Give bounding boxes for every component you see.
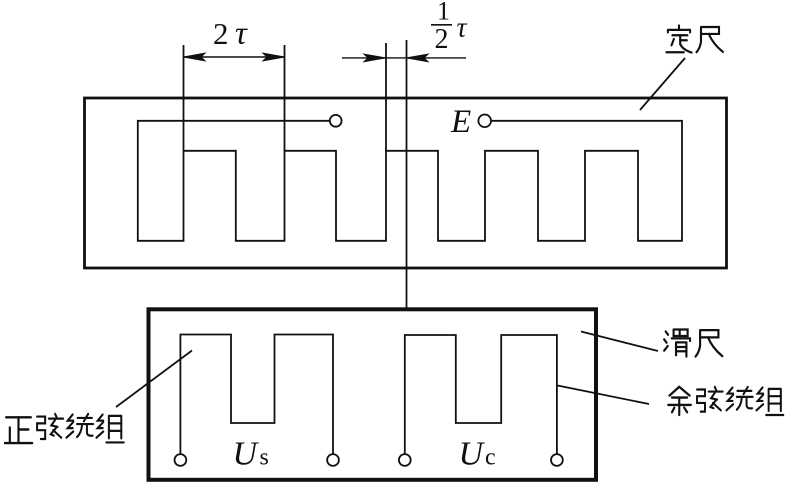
slider outline (滑尺) [149, 309, 597, 480]
extension line at winding leg x=284.5 [284, 45, 286, 151]
svg-text:τ: τ [235, 16, 248, 52]
extension line at winding leg x=386 [385, 43, 387, 151]
stator winding W1 (continuous zigzag) [138, 121, 682, 241]
svg-text:s: s [260, 445, 269, 471]
cosine winding W3 [405, 335, 557, 454]
leader line to label hua-chi [581, 332, 658, 352]
terminal T5 (cosine winding left) [399, 454, 411, 466]
dimension 2tau arrow line [184, 53, 285, 61]
svg-text:1: 1 [437, 0, 450, 26]
svg-text:2: 2 [213, 16, 229, 51]
terminal T4 (sine winding right) [327, 454, 339, 466]
label 1/2 tau (fraction) [431, 0, 468, 55]
leader line to label zheng-xian-rao-zu [116, 351, 192, 408]
label 余弦绕组 (cosine winding label) [668, 387, 783, 415]
label 正弦绕组 (sine winding label) [5, 414, 124, 443]
leader line to label yu-xian-rao-zu [558, 386, 650, 405]
leader line to label ding-chi [640, 58, 685, 110]
sine winding W2 [180, 335, 333, 455]
svg-text:c: c [485, 445, 496, 471]
terminal T1 (stator left terminal circle) [330, 115, 342, 127]
dimension half-tau arrows [342, 54, 466, 62]
stator outline (fixed scale 定尺) [85, 98, 727, 268]
terminal T6 (cosine winding right) [551, 454, 563, 466]
svg-text:U: U [233, 435, 260, 472]
centre reference line (node between scales) [406, 40, 408, 308]
extension line at winding leg x=183.5 [183, 45, 185, 151]
svg-text:τ: τ [457, 13, 468, 44]
terminal T3 (sine winding left) [175, 454, 187, 466]
label 定尺 (fixed scale) [666, 25, 723, 52]
svg-text:U: U [459, 435, 486, 472]
svg-text:E: E [450, 104, 471, 140]
terminal T2 (excitation terminal circle E) [478, 115, 491, 128]
label Uc (cosine output voltage) [459, 435, 496, 472]
label 滑尺 (slider) [664, 329, 722, 356]
svg-text:2: 2 [435, 24, 449, 55]
label Us (sine output voltage) [233, 435, 269, 472]
